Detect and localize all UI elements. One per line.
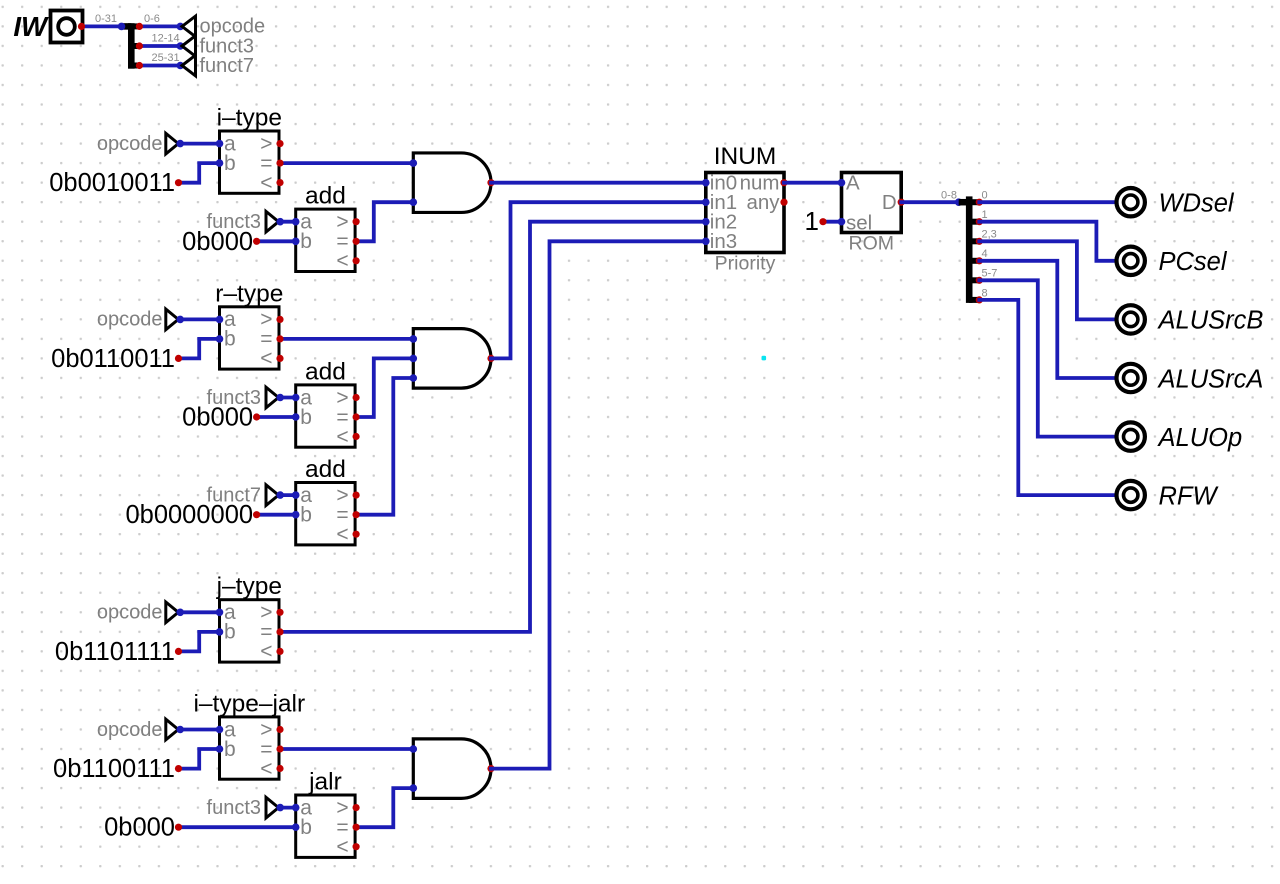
svg-text:12-14: 12-14 [152,32,180,44]
svg-text:r–type: r–type [215,280,283,307]
svg-text:<: < [260,757,272,780]
svg-text:add: add [305,183,346,210]
svg-text:funct7: funct7 [200,55,254,77]
svg-text:1: 1 [805,206,819,236]
svg-text:<: < [336,250,348,273]
svg-text:0-8: 0-8 [941,189,957,201]
svg-text:b: b [300,230,312,253]
svg-text:jalr: jalr [308,769,342,796]
svg-text:PCsel: PCsel [1159,248,1228,276]
svg-text:ALUSrcA: ALUSrcA [1157,365,1264,393]
svg-text:j–type: j–type [216,573,282,600]
svg-text:8: 8 [982,287,988,299]
svg-text:A: A [846,172,860,195]
svg-text:4: 4 [982,248,988,260]
svg-text:b: b [224,621,236,644]
svg-text:<: < [336,523,348,546]
svg-text:2,3: 2,3 [982,229,997,241]
svg-text:<: < [260,640,272,663]
svg-text:Priority: Priority [715,252,776,274]
svg-text:opcode: opcode [97,602,163,624]
svg-text:<: < [260,347,272,370]
svg-text:0b000: 0b000 [104,814,175,842]
svg-text:i–type–jalr: i–type–jalr [193,690,305,717]
svg-text:ALUSrcB: ALUSrcB [1157,307,1264,335]
svg-text:add: add [305,358,346,385]
svg-text:opcode: opcode [97,133,163,155]
svg-text:1: 1 [982,209,988,221]
svg-text:any: any [746,191,780,214]
svg-text:RFW: RFW [1159,482,1220,510]
svg-text:WDsel: WDsel [1159,190,1235,218]
svg-text:0b000: 0b000 [182,404,253,432]
svg-text:ALUOp: ALUOp [1157,424,1243,452]
svg-text:opcode: opcode [97,309,163,331]
svg-text:0b0110011: 0b0110011 [51,345,175,373]
svg-text:0: 0 [982,190,988,202]
svg-text:0-6: 0-6 [144,13,160,25]
svg-text:i–type: i–type [217,105,282,132]
svg-text:5-7: 5-7 [982,268,998,280]
svg-text:funct3: funct3 [207,797,261,819]
svg-text:b: b [224,328,236,351]
svg-text:ROM: ROM [849,233,895,255]
svg-text:b: b [224,152,236,175]
svg-text:0b1100111: 0b1100111 [53,755,175,783]
svg-text:0b1101111: 0b1101111 [55,638,175,666]
svg-text:add: add [305,456,346,483]
svg-text:b: b [300,406,312,429]
svg-text:25-31: 25-31 [152,52,180,64]
svg-text:<: < [336,836,348,859]
svg-text:0-31: 0-31 [95,13,117,25]
svg-text:IW: IW [13,11,49,42]
svg-text:INUM: INUM [714,143,777,170]
svg-text:b: b [300,816,312,839]
svg-text:<: < [336,425,348,448]
svg-text:0b000: 0b000 [182,228,253,256]
svg-text:D: D [882,191,897,214]
svg-text:opcode: opcode [97,719,163,741]
svg-text:b: b [224,738,236,761]
svg-text:in3: in3 [710,230,737,253]
svg-text:b: b [300,504,312,527]
svg-text:sel: sel [846,212,872,235]
svg-text:<: < [260,171,272,194]
svg-text:0b0000000: 0b0000000 [125,501,253,529]
svg-text:0b0010011: 0b0010011 [49,169,175,197]
